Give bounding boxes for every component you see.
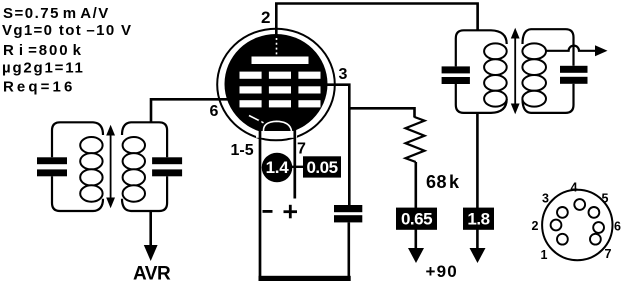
svg-text:5: 5	[602, 192, 609, 206]
svg-text:1: 1	[541, 248, 548, 262]
svg-text:1.8: 1.8	[467, 210, 489, 229]
svg-text:6: 6	[614, 220, 621, 234]
svg-text:7: 7	[297, 141, 306, 158]
svg-text:2: 2	[532, 219, 539, 233]
svg-text:Req=16: Req=16	[3, 79, 75, 96]
svg-text:6: 6	[210, 103, 219, 120]
svg-text:2: 2	[261, 8, 270, 27]
svg-text:0.65: 0.65	[401, 210, 432, 229]
svg-text:1.4: 1.4	[266, 158, 290, 177]
svg-text:AVR: AVR	[133, 264, 171, 285]
svg-text:Vg1=0 tot –10 V: Vg1=0 tot –10 V	[2, 22, 132, 39]
svg-text:+90: +90	[426, 262, 458, 281]
svg-text:0.05: 0.05	[306, 158, 337, 177]
svg-text:1-5: 1-5	[231, 142, 254, 159]
svg-text:S=0.75 m A/V: S=0.75 m A/V	[3, 5, 110, 22]
svg-text:4: 4	[571, 181, 578, 195]
svg-text:7: 7	[605, 247, 612, 261]
svg-text:µg2g1=11: µg2g1=11	[2, 60, 85, 77]
svg-text:68 k: 68 k	[426, 172, 460, 192]
svg-text:R i =800 k: R i =800 k	[3, 42, 83, 59]
svg-text:3: 3	[339, 66, 348, 83]
svg-text:3: 3	[542, 192, 549, 206]
